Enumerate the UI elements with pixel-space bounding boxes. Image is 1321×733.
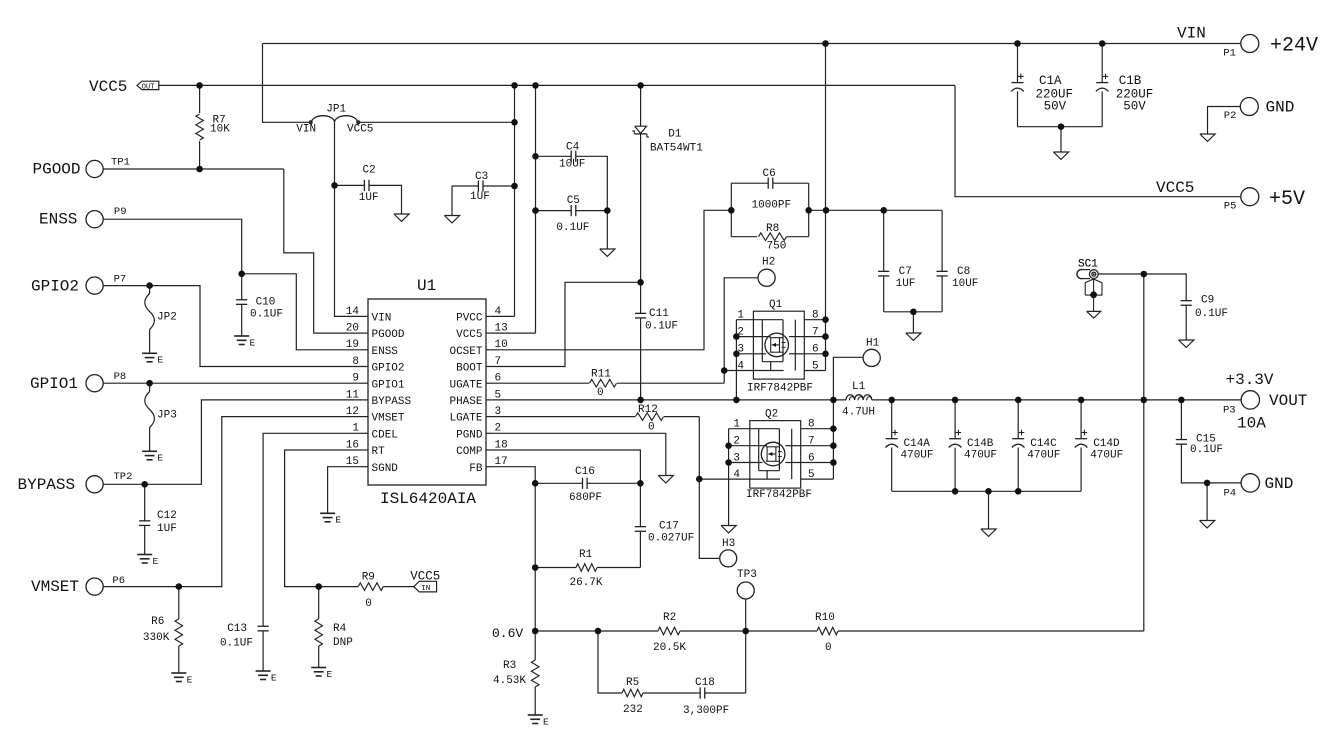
svg-text:10K: 10K (210, 123, 230, 135)
svg-text:P2: P2 (1224, 110, 1237, 122)
svg-text:C16: C16 (575, 466, 595, 478)
svg-text:VMSET: VMSET (372, 413, 405, 425)
svg-text:VMSET: VMSET (31, 578, 79, 596)
svg-text:3,300PF: 3,300PF (683, 705, 729, 717)
svg-text:330K: 330K (143, 632, 170, 644)
svg-text:TP3: TP3 (737, 569, 757, 581)
svg-text:19: 19 (346, 339, 359, 351)
svg-text:C11: C11 (649, 308, 669, 320)
svg-text:0.6V: 0.6V (492, 626, 523, 641)
svg-text:0.027UF: 0.027UF (648, 533, 694, 545)
svg-text:470UF: 470UF (964, 450, 997, 462)
svg-text:E: E (157, 453, 163, 464)
svg-text:R8: R8 (766, 223, 779, 235)
svg-text:4: 4 (733, 469, 740, 481)
svg-text:3: 3 (495, 406, 502, 418)
svg-text:E: E (153, 556, 159, 567)
svg-text:UGATE: UGATE (449, 379, 482, 391)
svg-text:C14B: C14B (967, 438, 994, 450)
svg-text:Q2: Q2 (765, 409, 778, 421)
svg-text:IN: IN (421, 585, 430, 593)
svg-text:+5V: +5V (1269, 188, 1305, 211)
svg-text:R4: R4 (333, 623, 347, 635)
svg-text:C4: C4 (566, 142, 580, 154)
svg-text:0: 0 (597, 387, 604, 399)
svg-text:10UF: 10UF (559, 159, 585, 171)
svg-text:P4: P4 (1224, 488, 1237, 500)
svg-text:R11: R11 (591, 369, 611, 381)
svg-text:R10: R10 (815, 612, 835, 624)
svg-text:1UF: 1UF (896, 278, 916, 290)
svg-text:6: 6 (812, 344, 819, 356)
svg-text:Q1: Q1 (769, 299, 783, 311)
svg-text:3: 3 (737, 344, 744, 356)
svg-text:C14D: C14D (1093, 438, 1120, 450)
svg-text:VCC5: VCC5 (410, 569, 440, 583)
svg-text:PVCC: PVCC (456, 313, 483, 325)
svg-text:E: E (157, 355, 163, 366)
svg-text:5: 5 (808, 469, 815, 481)
svg-text:18: 18 (495, 439, 508, 451)
svg-text:17: 17 (495, 456, 508, 468)
svg-text:C17: C17 (659, 521, 679, 533)
svg-text:LGATE: LGATE (449, 413, 482, 425)
svg-text:OCSET: OCSET (449, 346, 482, 358)
svg-text:10: 10 (495, 339, 508, 351)
svg-text:C13: C13 (227, 623, 247, 635)
svg-text:H1: H1 (866, 338, 880, 350)
svg-text:P5: P5 (1224, 201, 1237, 213)
svg-text:FB: FB (469, 463, 483, 475)
svg-text:DNP: DNP (333, 637, 353, 649)
svg-text:0.1UF: 0.1UF (1195, 308, 1228, 320)
svg-text:5: 5 (812, 360, 819, 372)
svg-text:14: 14 (346, 306, 360, 318)
svg-text:0: 0 (648, 422, 655, 434)
svg-text:VIN: VIN (296, 123, 316, 135)
svg-text:BOOT: BOOT (456, 363, 483, 375)
svg-text:P6: P6 (112, 575, 125, 587)
svg-text:JP1: JP1 (326, 103, 346, 115)
svg-text:PGND: PGND (456, 429, 483, 441)
svg-text:C9: C9 (1201, 295, 1214, 307)
svg-text:9: 9 (352, 373, 359, 385)
svg-text:CDEL: CDEL (372, 429, 398, 441)
svg-text:E: E (187, 674, 193, 685)
svg-text:JP3: JP3 (157, 410, 177, 422)
svg-text:470UF: 470UF (1090, 450, 1123, 462)
svg-text:GND: GND (1265, 475, 1294, 493)
svg-text:C8: C8 (957, 266, 970, 278)
svg-text:VIN: VIN (372, 313, 392, 325)
svg-text:R5: R5 (626, 677, 639, 689)
svg-text:ISL6420AIA: ISL6420AIA (380, 490, 476, 508)
svg-text:C3: C3 (475, 171, 488, 183)
svg-text:P1: P1 (1223, 47, 1236, 59)
svg-text:0: 0 (365, 598, 372, 610)
svg-text:U1: U1 (417, 277, 436, 295)
svg-text:6: 6 (808, 452, 815, 464)
svg-text:VOUT: VOUT (1269, 392, 1307, 410)
svg-text:BAT54WT1: BAT54WT1 (650, 143, 703, 155)
svg-text:C1B: C1B (1119, 74, 1142, 88)
svg-text:GND: GND (1266, 99, 1295, 117)
svg-text:4: 4 (737, 360, 744, 372)
svg-text:2: 2 (495, 423, 502, 435)
svg-text:20.5K: 20.5K (653, 642, 686, 654)
svg-text:R12: R12 (638, 404, 658, 416)
svg-text:VCC5: VCC5 (1156, 179, 1194, 197)
svg-text:JP2: JP2 (157, 312, 177, 324)
svg-text:P8: P8 (114, 371, 127, 383)
svg-text:TP2: TP2 (114, 471, 133, 483)
svg-text:5: 5 (495, 389, 502, 401)
svg-text:8: 8 (352, 356, 359, 368)
svg-text:C10: C10 (256, 297, 276, 309)
svg-text:IRF7842PBF: IRF7842PBF (746, 489, 812, 501)
svg-text:1: 1 (737, 310, 744, 322)
svg-text:10UF: 10UF (952, 278, 978, 290)
svg-text:SGND: SGND (372, 463, 399, 475)
svg-text:C14A: C14A (904, 438, 931, 450)
svg-text:P3: P3 (1223, 405, 1236, 417)
svg-text:11: 11 (346, 389, 360, 401)
svg-text:470UF: 470UF (901, 450, 934, 462)
svg-text:E: E (250, 337, 256, 348)
svg-text:C1A: C1A (1039, 74, 1062, 88)
svg-text:PHASE: PHASE (449, 396, 482, 408)
svg-text:ENSS: ENSS (372, 346, 399, 358)
svg-text:IRF7842PBF: IRF7842PBF (747, 383, 813, 395)
svg-text:50V: 50V (1123, 100, 1146, 114)
svg-text:E: E (327, 669, 333, 680)
svg-text:2: 2 (733, 436, 740, 448)
svg-text:232: 232 (623, 704, 643, 716)
svg-text:C5: C5 (567, 195, 580, 207)
svg-text:GPIO2: GPIO2 (31, 278, 79, 296)
svg-text:BYPASS: BYPASS (372, 396, 412, 408)
svg-text:TP1: TP1 (111, 156, 130, 168)
svg-text:OUT: OUT (142, 84, 155, 92)
svg-text:7: 7 (495, 356, 502, 368)
svg-text:1000PF: 1000PF (752, 200, 792, 212)
svg-text:E: E (271, 672, 277, 683)
svg-text:C14C: C14C (1030, 438, 1057, 450)
svg-text:E: E (335, 515, 341, 526)
svg-text:4.53K: 4.53K (493, 675, 526, 687)
svg-text:1UF: 1UF (157, 523, 177, 535)
svg-text:R6: R6 (151, 616, 164, 628)
svg-text:GPIO1: GPIO1 (372, 379, 405, 391)
svg-text:GPIO2: GPIO2 (372, 363, 405, 375)
svg-text:VCC5: VCC5 (347, 123, 373, 135)
svg-text:0.1UF: 0.1UF (556, 222, 589, 234)
svg-text:H2: H2 (762, 257, 775, 269)
svg-text:VCC5: VCC5 (456, 329, 482, 341)
svg-text:15: 15 (346, 456, 359, 468)
svg-text:R1: R1 (579, 549, 593, 561)
svg-text:13: 13 (495, 323, 508, 335)
svg-text:SC1: SC1 (1078, 258, 1098, 270)
svg-text:VIN: VIN (1177, 25, 1206, 43)
svg-text:10A: 10A (1237, 415, 1266, 433)
svg-text:P9: P9 (114, 206, 127, 218)
svg-text:+24V: +24V (1270, 35, 1318, 58)
svg-text:750: 750 (767, 241, 787, 253)
svg-text:1: 1 (352, 423, 359, 435)
svg-text:+3.3V: +3.3V (1226, 371, 1274, 389)
svg-text:470UF: 470UF (1027, 450, 1060, 462)
svg-text:R9: R9 (362, 571, 375, 583)
svg-text:0.1UF: 0.1UF (250, 309, 283, 321)
svg-text:PGOOD: PGOOD (33, 161, 81, 179)
svg-text:C12: C12 (157, 510, 177, 522)
svg-text:ENSS: ENSS (39, 211, 77, 229)
svg-text:GPIO1: GPIO1 (30, 375, 78, 393)
svg-text:0: 0 (825, 642, 832, 654)
svg-text:P7: P7 (114, 273, 127, 285)
svg-text:26.7K: 26.7K (570, 577, 603, 589)
svg-text:6: 6 (495, 373, 502, 385)
svg-text:0.1UF: 0.1UF (1190, 444, 1223, 456)
svg-text:L1: L1 (852, 381, 866, 393)
svg-text:E: E (543, 716, 549, 727)
svg-text:COMP: COMP (456, 446, 483, 458)
svg-text:12: 12 (346, 406, 359, 418)
svg-text:C6: C6 (763, 168, 776, 180)
svg-text:R2: R2 (663, 612, 676, 624)
svg-text:VCC5: VCC5 (89, 78, 127, 96)
svg-text:2: 2 (737, 326, 744, 338)
svg-text:C7: C7 (899, 266, 912, 278)
svg-text:8: 8 (812, 310, 819, 322)
svg-text:D1: D1 (668, 128, 682, 140)
svg-text:3: 3 (733, 452, 740, 464)
svg-text:0.1UF: 0.1UF (645, 321, 678, 333)
svg-text:RT: RT (372, 446, 386, 458)
svg-text:50V: 50V (1044, 100, 1067, 114)
svg-text:BYPASS: BYPASS (18, 476, 76, 494)
svg-text:PGOOD: PGOOD (372, 329, 405, 341)
svg-text:680PF: 680PF (569, 492, 602, 504)
svg-text:R3: R3 (503, 660, 516, 672)
svg-text:1: 1 (733, 419, 740, 431)
svg-text:1UF: 1UF (359, 192, 379, 204)
svg-text:20: 20 (346, 323, 359, 335)
svg-text:16: 16 (346, 439, 359, 451)
svg-text:7: 7 (808, 436, 815, 448)
svg-text:C18: C18 (695, 677, 715, 689)
svg-text:4: 4 (495, 306, 502, 318)
svg-text:7: 7 (812, 326, 819, 338)
svg-text:0.1UF: 0.1UF (220, 638, 253, 650)
svg-text:8: 8 (808, 419, 815, 431)
svg-text:H3: H3 (722, 538, 735, 550)
svg-text:4.7UH: 4.7UH (842, 407, 875, 419)
svg-text:1UF: 1UF (470, 191, 490, 203)
svg-text:C2: C2 (363, 165, 376, 177)
